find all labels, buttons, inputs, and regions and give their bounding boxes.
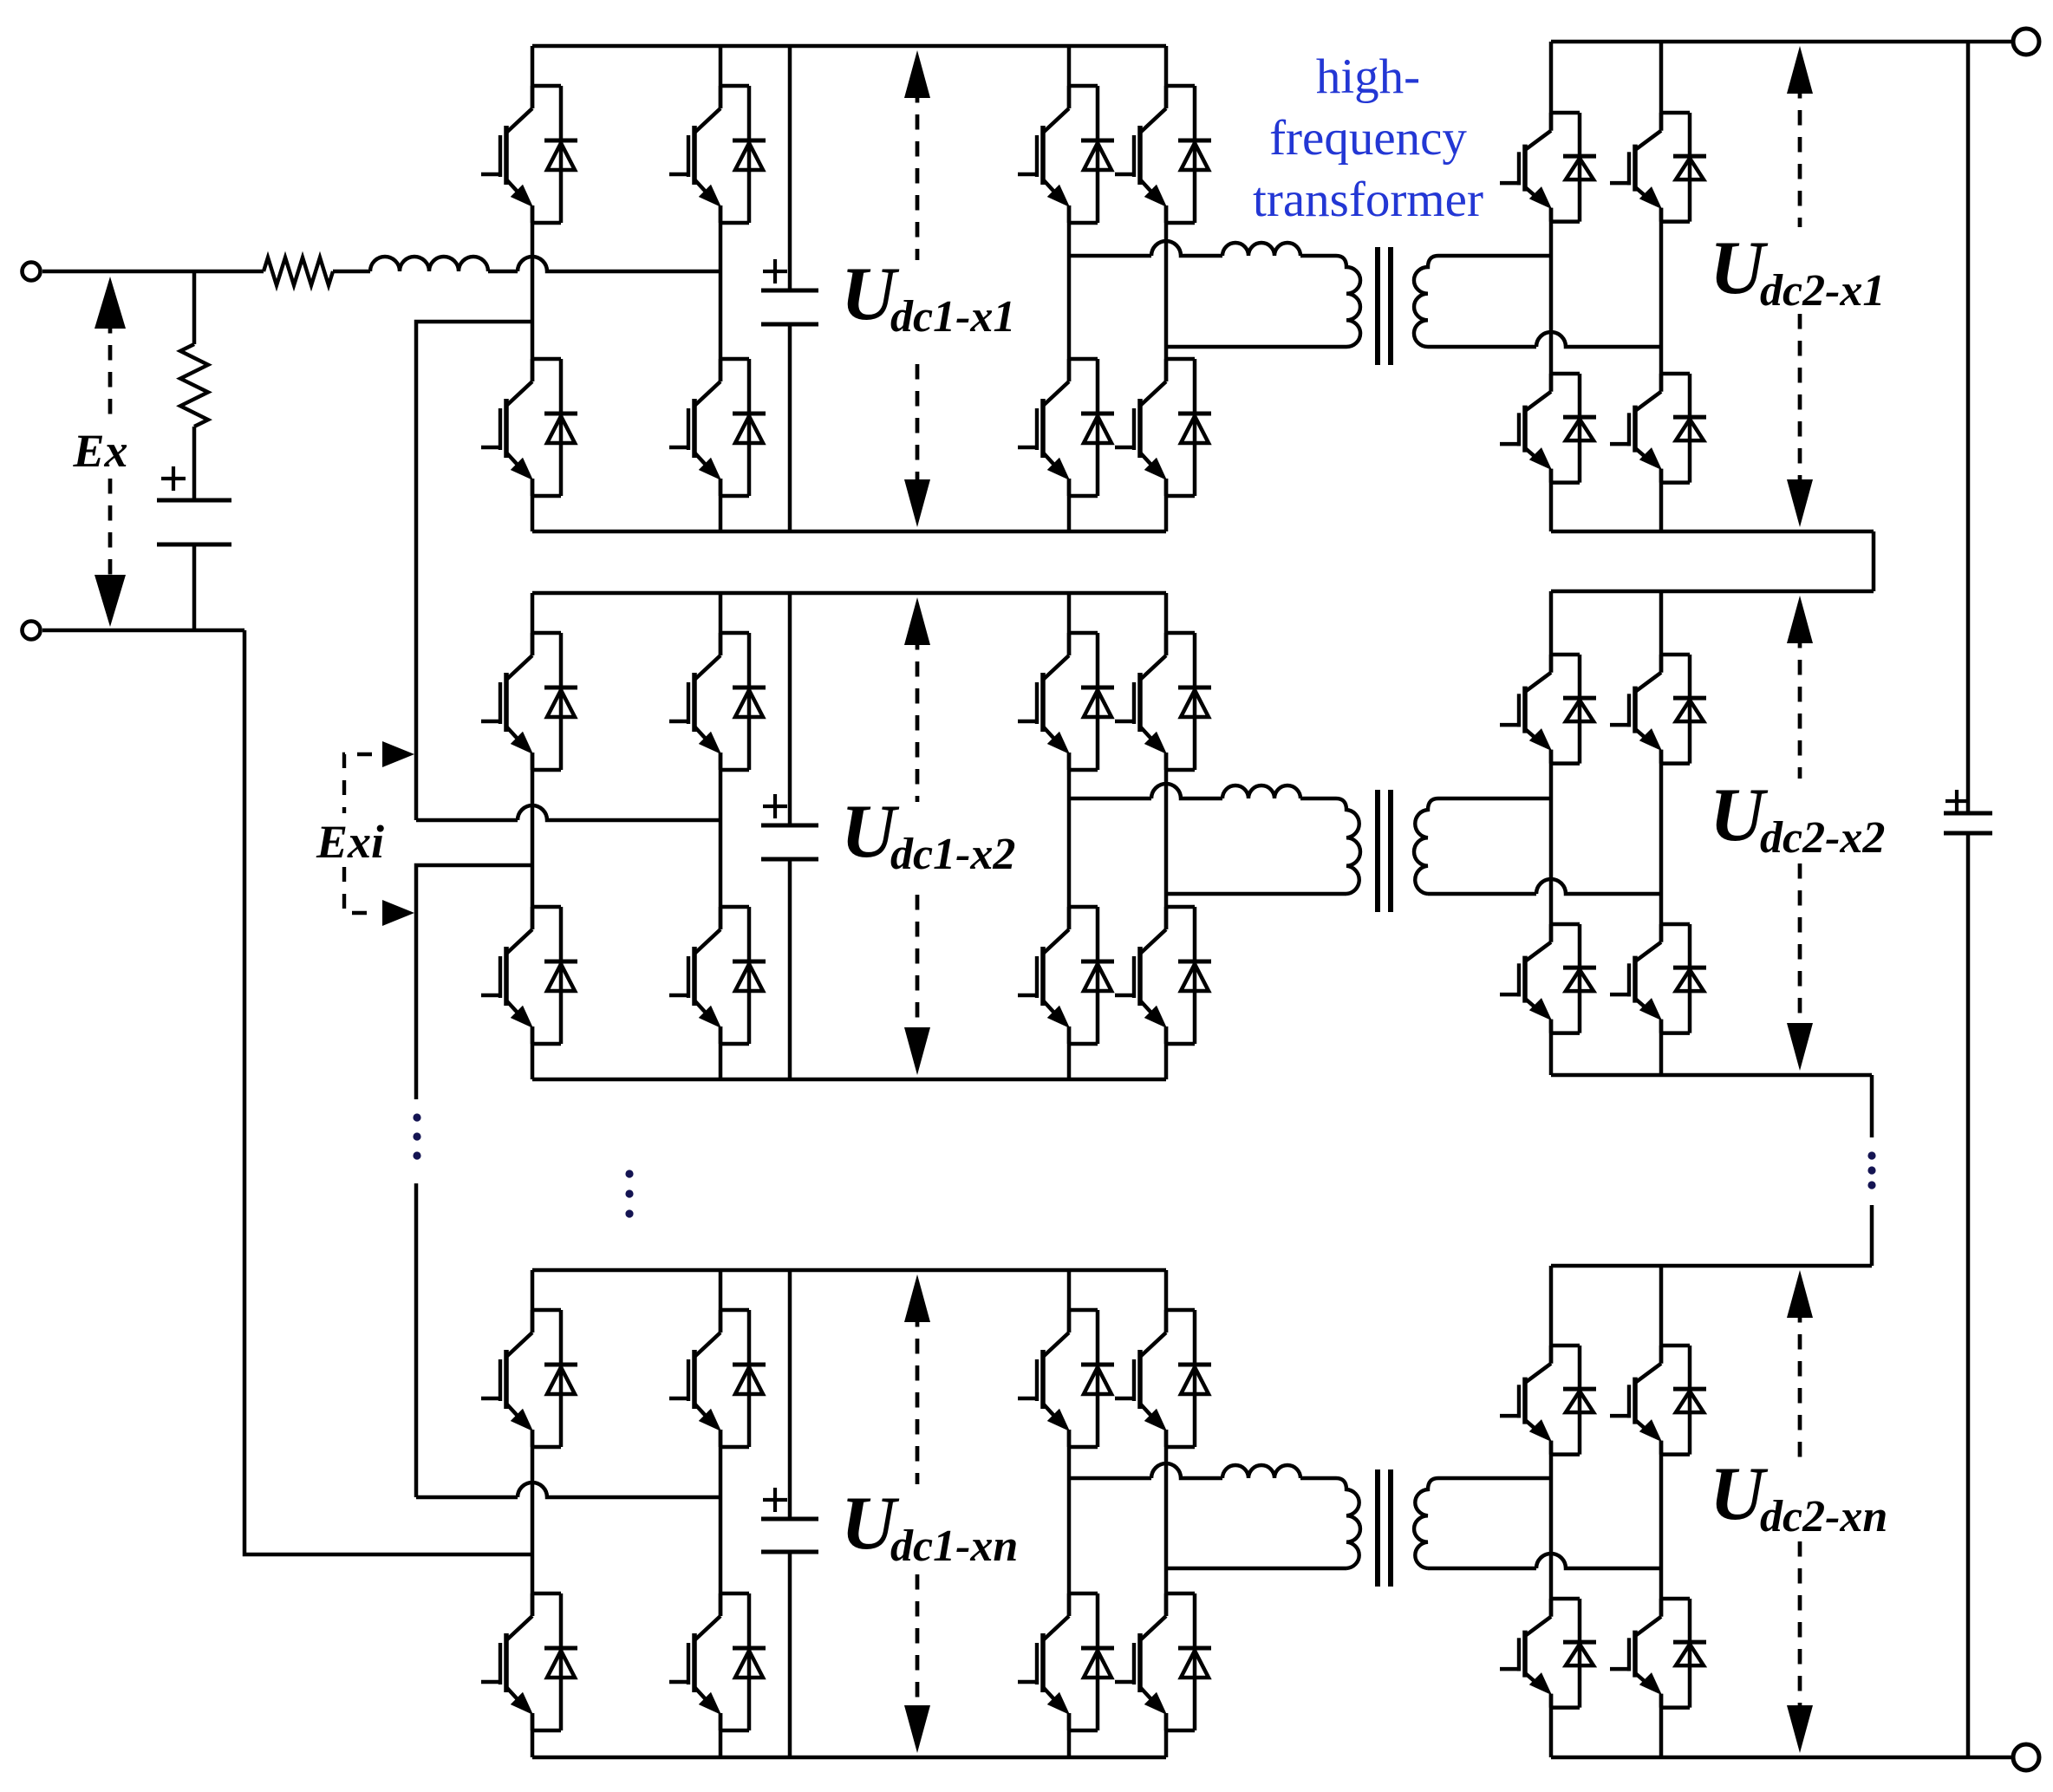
wire: shunt branch from input node: [192, 271, 197, 344]
wire: inductor to transformer primary: [1300, 254, 1336, 258]
wire: module x2 DC-link column (bottom): [788, 859, 792, 1079]
dashed arrow U_dc2-x2: [1787, 596, 1813, 1071]
wire: output DC bus (right vertical, bottom): [1966, 833, 1971, 1757]
wire: module x2 secondary top rail: [1551, 590, 1874, 594]
transistor Q17 (module x2 DAB primary, leg C top): [1018, 633, 1114, 770]
svg-text:transformer: transformer: [1253, 173, 1483, 227]
wire: module xn DAB primary leg D: [1164, 1270, 1169, 1757]
wire: module x2 DC-link column (top): [788, 593, 792, 825]
svg-text:dc2-x2: dc2-x2: [1760, 813, 1885, 863]
wire: module x1 DAB secondary leg E: [1549, 42, 1554, 531]
svg-text:Ex: Ex: [72, 425, 127, 477]
transistor Q11 (module x1 DAB secondary, leg F top): [1610, 113, 1706, 222]
dots: more modules (chain column): [413, 1113, 420, 1159]
transistor Q30 (module xn DAB primary, leg C bottom): [1018, 1593, 1114, 1730]
Q30: antiparallel diode: [1069, 1592, 1098, 1596]
svg-text:dc2-x1: dc2-x1: [1760, 266, 1885, 316]
capacitor C (input side) bottom plate: [157, 543, 231, 547]
transistor Q32 (module xn DAB primary, leg D bottom): [1115, 1593, 1211, 1730]
Q10: antiparallel diode: [1551, 372, 1580, 376]
Q9: IGBT: [1549, 113, 1554, 131]
transistor Q18 (module x2 DAB primary, leg C bottom): [1018, 907, 1114, 1044]
Q6: antiparallel diode: [1069, 357, 1098, 362]
wire: inductor to transformer primary: [1300, 797, 1336, 801]
wire: module xn grid H-bridge leg B: [719, 1270, 723, 1757]
Q12: antiparallel diode: [1661, 372, 1690, 376]
wire: transformer secondary return, hops over leg E, to leg F: [1428, 332, 1661, 347]
wire: series link x2-xn (upper): [1870, 1075, 1874, 1137]
dashed arrow U_dc1-xn: [904, 1274, 930, 1753]
Q21: antiparallel diode: [1551, 653, 1580, 657]
transformer TR-x2 core: [1378, 790, 1391, 912]
wire: module xn DC-link column (top): [788, 1270, 792, 1519]
Q20: IGBT: [1164, 907, 1169, 929]
Q17: IGBT: [1067, 633, 1072, 655]
wire: output DC bus (right vertical, top): [1966, 42, 1971, 813]
transistor Q10 (module x1 DAB secondary, leg E bottom): [1500, 374, 1596, 483]
wire: module xn secondary bottom rail to output terminal: [1551, 1756, 2015, 1760]
Q8: IGBT: [1164, 359, 1169, 381]
dashed bracket for Exi (bottom): [344, 867, 372, 913]
wire: module x1 grid H-bridge leg B: [719, 46, 723, 531]
Q13: antiparallel diode: [532, 631, 561, 635]
wire: transformer secondary return, hops over leg E, to leg F: [1428, 1554, 1661, 1568]
transistor Q16 (module x2 grid bridge, leg B bottom): [669, 907, 766, 1044]
Q36: antiparallel diode: [1661, 1597, 1690, 1601]
transformer TR-x1 primary winding: [1336, 256, 1360, 347]
transistor Q27 (module xn grid bridge, leg B top): [669, 1310, 766, 1447]
wire: module xn grid H-bridge leg A: [531, 1270, 535, 1757]
transistor Q31 (module xn DAB primary, leg D top): [1115, 1310, 1211, 1447]
Q2: IGBT: [531, 359, 535, 381]
polarity + of DC-link capacitor C1-x2: [763, 794, 787, 818]
capacitor C (input side) top plate: [157, 499, 231, 503]
wire: module x2 DAB primary leg D: [1164, 593, 1169, 1079]
wire: module x2 grid H-bridge leg A: [531, 593, 535, 1079]
Q34: antiparallel diode: [1551, 1597, 1580, 1601]
wire: module x1 secondary bottom rail: [1551, 530, 1874, 534]
transistor Q3 (module x1 grid bridge, leg B top): [669, 86, 766, 223]
Q7: IGBT: [1164, 86, 1169, 108]
polarity + of DC-link capacitor C1-x1: [763, 259, 787, 283]
capacitor C2 (output bus) bottom plate: [1944, 831, 1992, 836]
transistor Q33 (module xn DAB secondary, leg E top): [1500, 1346, 1596, 1455]
wire: transformer primary return to leg D: [1166, 345, 1346, 349]
transistor Q36 (module xn DAB secondary, leg F bottom): [1610, 1599, 1706, 1708]
Q18: antiparallel diode: [1069, 905, 1098, 909]
wire: resistor to capacitor: [192, 427, 197, 500]
dashed arrow U_dc2-x1: [1787, 46, 1813, 527]
Q35: antiparallel diode: [1661, 1344, 1690, 1348]
transistor Q35 (module xn DAB secondary, leg F top): [1610, 1346, 1706, 1455]
dashed bracket for Exi (top): [344, 754, 372, 813]
Q34: IGBT: [1549, 1599, 1554, 1617]
input terminal (top, +): [23, 263, 41, 281]
output terminal (bottom, -): [2013, 1744, 2039, 1770]
svg-text:dc1-x1: dc1-x1: [890, 292, 1015, 342]
wire: resistor to inductor: [333, 270, 370, 274]
transistor Q15 (module x2 grid bridge, leg B top): [669, 633, 766, 770]
Q15: IGBT: [719, 633, 723, 655]
label: high-frequency transformer (blue caption): [1253, 49, 1483, 227]
svg-text:dc1-xn: dc1-xn: [890, 1522, 1018, 1571]
Q5: IGBT: [1067, 86, 1072, 108]
Q15: antiparallel diode: [720, 631, 749, 635]
wire: module x1 grid H-bridge leg A: [531, 46, 535, 531]
capacitor C1-x1 top plate: [761, 289, 818, 293]
Q1: IGBT: [531, 86, 535, 108]
wire: module x2 secondary bottom rail: [1551, 1073, 1872, 1078]
Q1: antiparallel diode: [532, 84, 561, 88]
dashed arrow U_dc2-xn: [1787, 1270, 1813, 1753]
transistor Q25 (module xn grid bridge, leg A top): [481, 1310, 577, 1447]
transistor Q22 (module x2 DAB secondary, leg E bottom): [1500, 924, 1596, 1033]
transistor Q29 (module xn DAB primary, leg C top): [1018, 1310, 1114, 1447]
wire: transformer secondary to DAB secondary leg E: [1438, 1476, 1551, 1481]
transistor Q2 (module x1 grid bridge, leg A bottom): [481, 359, 577, 496]
Q3: antiparallel diode: [720, 84, 749, 88]
wire: transformer primary return to leg D: [1166, 892, 1346, 896]
transistor Q12 (module x1 DAB secondary, leg F bottom): [1610, 374, 1706, 483]
wire: module x1 DAB primary leg D: [1164, 46, 1169, 531]
transistor Q14 (module x2 grid bridge, leg A bottom): [481, 907, 577, 1044]
inductor Ls (module xn DAB link): [1222, 1465, 1300, 1478]
arrow Exi bottom (points at chain wire): [382, 900, 414, 926]
Q35: IGBT: [1659, 1346, 1664, 1364]
Q22: antiparallel diode: [1551, 922, 1580, 927]
polarity + of DC-link capacitor C1-xn: [763, 1488, 787, 1512]
polarity + of output capacitor: [1945, 790, 1968, 812]
Q11: antiparallel diode: [1661, 111, 1690, 115]
wire: module x1 DC bus bottom rail: [532, 530, 1166, 534]
Q18: IGBT: [1067, 907, 1072, 929]
transistor Q13 (module x2 grid bridge, leg A top): [481, 633, 577, 770]
Q25: antiparallel diode: [532, 1308, 561, 1313]
label U_dc1-xn: [841, 1482, 1018, 1571]
capacitor C1-x2 top plate: [761, 824, 818, 828]
resistor R (shunt damping): [180, 344, 208, 427]
polarity + of input capacitor: [161, 466, 186, 491]
svg-text:frequency: frequency: [1269, 111, 1467, 166]
wire: module x2 AC output (leg A) to chain: [416, 865, 532, 1099]
wire: module x2 DAB secondary leg F: [1659, 591, 1664, 1075]
wire: bottom input rail: [42, 629, 244, 633]
transistor Q1 (module x1 grid bridge, leg A top): [481, 86, 577, 223]
resistor R (series input): [264, 257, 333, 285]
transformer TR-xn secondary winding: [1414, 1478, 1438, 1568]
Q23: antiparallel diode: [1661, 653, 1690, 657]
wire: chain into module xn AC input, hops over left leg: [416, 1482, 720, 1497]
Q14: IGBT: [531, 907, 535, 929]
wire: transformer secondary to DAB secondary leg E: [1438, 797, 1551, 801]
wire: module x1 DAB AC (leg C) hops over leg D: [1069, 241, 1222, 256]
Q28: IGBT: [719, 1593, 723, 1616]
capacitor C1-x2 bottom plate: [761, 857, 818, 862]
dashed arrow U_dc1-x1: [904, 50, 930, 527]
capacitor C1-x1 bottom plate: [761, 323, 818, 327]
wire: module x1 DAB primary leg C: [1067, 46, 1072, 531]
wire: module x2 DAB primary leg C: [1067, 593, 1072, 1079]
Q20: antiparallel diode: [1166, 905, 1195, 909]
dots: more modules (output series column): [1867, 1151, 1875, 1189]
wire: module x2 DC bus top rail: [532, 591, 1166, 596]
Q7: antiparallel diode: [1166, 84, 1195, 88]
Q16: antiparallel diode: [720, 905, 749, 909]
wire: module xn DC-link column (bottom): [788, 1552, 792, 1757]
Q19: IGBT: [1164, 633, 1169, 655]
arrow Exi top (points at chain wire): [382, 741, 414, 767]
Q26: IGBT: [531, 1593, 535, 1616]
wire: module xn DAB AC (leg C) hops over leg D: [1069, 1463, 1222, 1478]
transformer TR-x1 secondary winding: [1414, 256, 1438, 347]
wire: module x2 grid H-bridge leg B: [719, 593, 723, 1079]
Q32: antiparallel diode: [1166, 1592, 1195, 1596]
Q13: IGBT: [531, 633, 535, 655]
dashed arrow U_dc1-x2: [904, 597, 930, 1075]
wire: module xn DC bus bottom rail: [532, 1756, 1166, 1760]
Q10: IGBT: [1549, 374, 1554, 392]
Q14: antiparallel diode: [532, 905, 561, 909]
wire: series link x2-xn (lower): [1870, 1205, 1874, 1266]
transistor Q7 (module x1 DAB primary, leg D top): [1115, 86, 1211, 223]
wire: return bus down the left side to module xn: [244, 630, 532, 1554]
Q33: antiparallel diode: [1551, 1344, 1580, 1348]
Q9: antiparallel diode: [1551, 111, 1580, 115]
capacitor C1-xn bottom plate: [761, 1550, 818, 1554]
capacitor C2 (output bus) top plate: [1944, 811, 1992, 816]
wire: transformer secondary return, hops over leg E, to leg F: [1428, 879, 1661, 894]
dashed arrow Ex (input voltage): [95, 277, 126, 627]
transistor Q28 (module xn grid bridge, leg B bottom): [669, 1593, 766, 1730]
wire: top input to series resistor: [42, 270, 264, 274]
Q16: IGBT: [719, 907, 723, 929]
wire: inductor to module x1 AC input, hops over left leg: [488, 257, 720, 271]
transistor Q20 (module x2 DAB primary, leg D bottom): [1115, 907, 1211, 1044]
output terminal (top, +): [2013, 29, 2039, 55]
Q28: antiparallel diode: [720, 1592, 749, 1596]
wire: module xn DC bus top rail: [532, 1268, 1166, 1273]
transformer TR-x2 secondary winding: [1414, 798, 1438, 894]
wire: series link x1-x2 (right vertical): [1872, 531, 1876, 591]
wire: transformer primary return to leg D: [1166, 1567, 1346, 1571]
inductor Ls (module x2 DAB link): [1222, 785, 1300, 798]
Q32: IGBT: [1164, 1593, 1169, 1616]
wire: chain into module x2 AC input, hops over left leg: [416, 805, 720, 820]
Q27: IGBT: [719, 1310, 723, 1333]
Q29: IGBT: [1067, 1310, 1072, 1333]
wire: module x1 DC bus top rail: [532, 44, 1166, 49]
transistor Q34 (module xn DAB secondary, leg E bottom): [1500, 1599, 1596, 1708]
wire: module xn DAB secondary leg F: [1659, 1266, 1664, 1757]
wire: module xn DAB secondary leg E: [1549, 1266, 1554, 1757]
Q21: IGBT: [1549, 655, 1554, 673]
transistor Q9 (module x1 DAB secondary, leg E top): [1500, 113, 1596, 222]
wire: module x2 DC bus bottom rail: [532, 1078, 1166, 1082]
transistor Q21 (module x2 DAB secondary, leg E top): [1500, 655, 1596, 764]
wire: chain resumes to module xn: [414, 1183, 419, 1497]
label U_dc2-xn: [1710, 1452, 1887, 1541]
Q31: IGBT: [1164, 1310, 1169, 1333]
Q3: IGBT: [719, 86, 723, 108]
Q4: antiparallel diode: [720, 357, 749, 362]
transformer TR-xn primary winding: [1336, 1478, 1360, 1568]
Q11: IGBT: [1659, 113, 1664, 131]
Q26: antiparallel diode: [532, 1592, 561, 1596]
Q5: antiparallel diode: [1069, 84, 1098, 88]
Q17: antiparallel diode: [1069, 631, 1098, 635]
transistor Q8 (module x1 DAB primary, leg D bottom): [1115, 359, 1211, 496]
Q25: IGBT: [531, 1310, 535, 1333]
transistor Q19 (module x2 DAB primary, leg D top): [1115, 633, 1211, 770]
label U_dc2-x2: [1710, 773, 1885, 863]
Q19: antiparallel diode: [1166, 631, 1195, 635]
wire: module x1 AC output (leg A) to chain: [416, 322, 532, 820]
capacitor C1-xn top plate: [761, 1517, 818, 1522]
Q30: IGBT: [1067, 1593, 1072, 1616]
transistor Q26 (module xn grid bridge, leg A bottom): [481, 1593, 577, 1730]
transistor Q24 (module x2 DAB secondary, leg F bottom): [1610, 924, 1706, 1033]
Q24: IGBT: [1659, 924, 1664, 942]
wire: module x1 secondary top rail to output terminal: [1551, 40, 2015, 44]
wire: transformer secondary to DAB secondary leg E: [1438, 254, 1551, 258]
Q2: antiparallel diode: [532, 357, 561, 362]
input terminal (bottom, -): [23, 622, 41, 640]
wire: capacitor to bottom input rail: [192, 544, 197, 630]
Q27: antiparallel diode: [720, 1308, 749, 1313]
wire: module xn secondary top rail: [1551, 1264, 1872, 1268]
transistor Q4 (module x1 grid bridge, leg B bottom): [669, 359, 766, 496]
transistor Q6 (module x1 DAB primary, leg C bottom): [1018, 359, 1114, 496]
Q23: IGBT: [1659, 655, 1664, 673]
wire: module x1 DC-link column (bottom): [788, 324, 792, 531]
wire: module x2 DAB secondary leg E: [1549, 591, 1554, 1075]
inductor L (series input): [370, 257, 488, 271]
label U_dc2-x1: [1710, 226, 1885, 316]
dots: more modules (between H-bridge columns): [625, 1170, 633, 1217]
transformer TR-x1 core: [1378, 247, 1391, 365]
wire: module xn DAB primary leg C: [1067, 1270, 1072, 1757]
Q6: IGBT: [1067, 359, 1072, 381]
transformer TR-xn core: [1378, 1469, 1391, 1587]
Q22: IGBT: [1549, 924, 1554, 942]
svg-text:Exi: Exi: [316, 816, 384, 868]
Q24: antiparallel diode: [1661, 922, 1690, 927]
Q31: antiparallel diode: [1166, 1308, 1195, 1313]
transistor Q5 (module x1 DAB primary, leg C top): [1018, 86, 1114, 223]
wire: inductor to transformer primary: [1300, 1476, 1336, 1481]
svg-text:high-: high-: [1316, 49, 1420, 104]
svg-text:dc1-x2: dc1-x2: [890, 830, 1015, 879]
transistor Q23 (module x2 DAB secondary, leg F top): [1610, 655, 1706, 764]
transformer TR-x2 primary winding: [1336, 798, 1360, 894]
Q4: IGBT: [719, 359, 723, 381]
wire: module x2 DAB AC (leg C) hops over leg D: [1069, 784, 1222, 798]
wire: module x1 DC-link column (top): [788, 46, 792, 290]
svg-text:dc2-xn: dc2-xn: [1760, 1492, 1887, 1541]
Q12: IGBT: [1659, 374, 1664, 392]
Q8: antiparallel diode: [1166, 357, 1195, 362]
label U_dc1-x1: [841, 252, 1015, 342]
label U_dc1-x2: [841, 790, 1015, 879]
Q33: IGBT: [1549, 1346, 1554, 1364]
Q36: IGBT: [1659, 1599, 1664, 1617]
Q29: antiparallel diode: [1069, 1308, 1098, 1313]
inductor Ls (module x1 DAB link): [1222, 243, 1300, 256]
wire: module x1 DAB secondary leg F: [1659, 42, 1664, 531]
